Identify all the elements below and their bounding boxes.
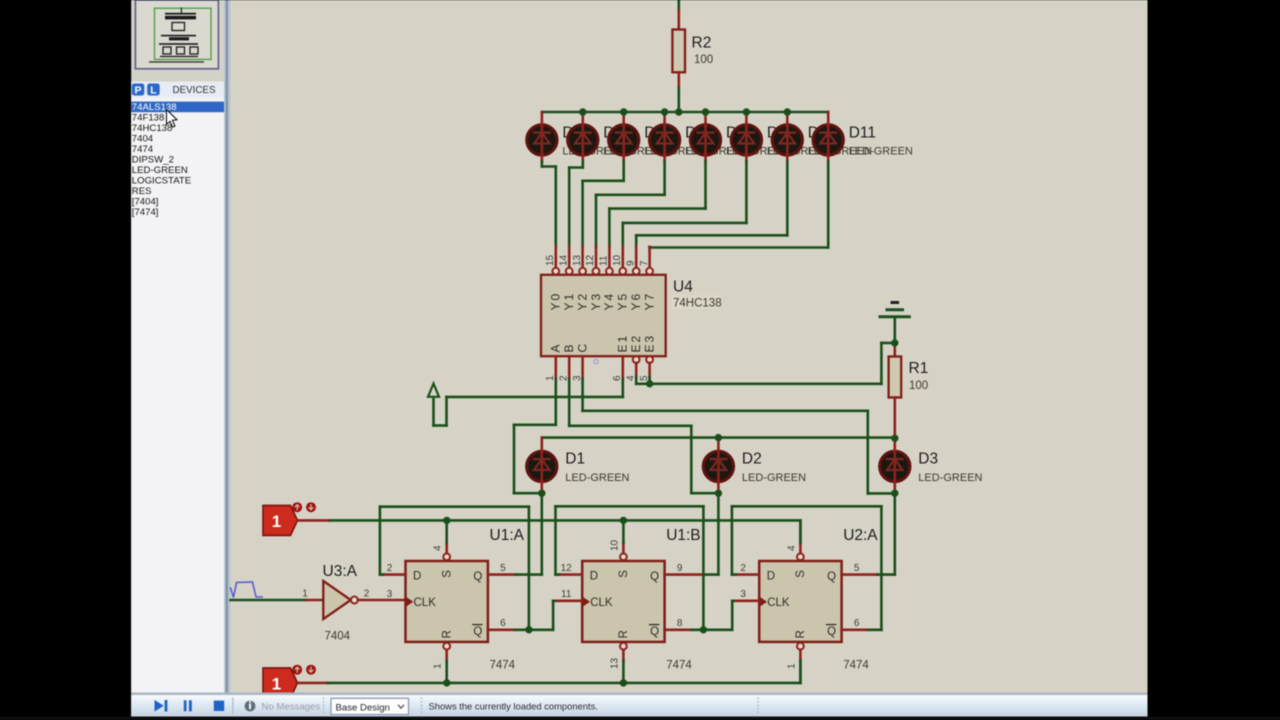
- svg-text:LED-GREEN: LED-GREEN: [849, 146, 913, 158]
- svg-text:R1: R1: [909, 360, 929, 377]
- svg-text:A: A: [549, 342, 563, 352]
- svg-text:L: L: [150, 85, 157, 97]
- wire U1:B Q to D2: [665, 493, 719, 574]
- junction bus/LED D5: [579, 108, 586, 115]
- svg-text:12: 12: [561, 563, 573, 574]
- svg-text:74HC138: 74HC138: [673, 298, 722, 310]
- svg-text:P: P: [134, 85, 141, 97]
- LED D1: [527, 450, 557, 482]
- wire bus to LED D4 top: [541, 112, 544, 125]
- svg-text:Base Design: Base Design: [336, 702, 390, 713]
- junction bus/LED D10: [784, 108, 791, 115]
- svg-text:LED-GREEN: LED-GREEN: [918, 472, 982, 484]
- LED anode bus wire: [542, 111, 828, 114]
- svg-text:D1: D1: [565, 451, 585, 468]
- wire U2:A Q to D3: [842, 493, 895, 574]
- svg-text:Q: Q: [473, 571, 482, 583]
- wire bus to LED D9 top: [745, 112, 748, 125]
- svg-text:5: 5: [500, 563, 506, 574]
- junction D2 bottom: [715, 490, 722, 497]
- play button: [155, 700, 168, 712]
- svg-text:DEVICES: DEVICES: [172, 85, 215, 96]
- svg-text:5: 5: [854, 563, 860, 574]
- svg-text:4: 4: [433, 545, 444, 551]
- wire into LED D2: [717, 438, 720, 494]
- status hint text: [422, 698, 598, 715]
- svg-text:Q: Q: [827, 626, 836, 638]
- svg-text:1: 1: [433, 663, 444, 669]
- svg-text:13: 13: [572, 254, 583, 266]
- minimap overview window: [135, 0, 218, 69]
- svg-text:10: 10: [609, 539, 620, 551]
- svg-text:E2: E2: [629, 334, 643, 353]
- svg-text:CLK: CLK: [767, 597, 790, 609]
- svg-text:Y1: Y1: [562, 292, 576, 311]
- flip-flop U1:B 7474: [561, 520, 701, 683]
- svg-text:R: R: [618, 630, 630, 638]
- panel/canvas divider: [224, 0, 231, 717]
- junction ground/R1: [891, 339, 898, 346]
- svg-text:D: D: [590, 571, 598, 583]
- junction bus/LED D9: [743, 108, 750, 115]
- wire bus to LED D8 top: [704, 112, 707, 125]
- input waveform glyph: [231, 582, 263, 598]
- wire U1:A D feedback: [380, 507, 529, 630]
- svg-text:Y4: Y4: [602, 292, 616, 311]
- wire U1:B Qbar to U2:A CLK: [665, 601, 760, 630]
- svg-text:D: D: [413, 571, 421, 583]
- wire LED D6 cathode to U4 Y2: [583, 155, 624, 268]
- svg-text:100: 100: [909, 380, 928, 392]
- svg-text:4: 4: [625, 375, 636, 381]
- LED D8: [690, 124, 720, 156]
- P/L buttons + DEVICES header: [131, 82, 225, 98]
- device list: [131, 98, 224, 693]
- wire bus to LED D11 top: [827, 112, 830, 125]
- wire U1:A Q to D1: [488, 493, 542, 574]
- svg-text:74ALS138: 74ALS138: [132, 102, 177, 113]
- svg-text:7404: 7404: [325, 631, 351, 643]
- svg-text:U3:A: U3:A: [323, 563, 358, 580]
- svg-text:No Messages: No Messages: [262, 702, 321, 713]
- LED D9: [731, 124, 761, 156]
- svg-text:3: 3: [387, 589, 393, 600]
- svg-text:U1:B: U1:B: [666, 527, 700, 544]
- junction D1 bottom: [538, 490, 545, 497]
- svg-text:7474: 7474: [490, 660, 516, 672]
- svg-text:CLK: CLK: [590, 597, 613, 609]
- svg-text:12: 12: [585, 254, 596, 266]
- svg-text:LED-GREEN: LED-GREEN: [565, 472, 629, 484]
- svg-text:U2:A: U2:A: [843, 527, 878, 544]
- svg-text:1: 1: [786, 663, 797, 669]
- svg-text:Shows the currently loaded com: Shows the currently loaded components.: [429, 700, 598, 711]
- wire U4.E1(6) to input arrow: [434, 379, 623, 426]
- wire bus to LED D6 top: [622, 112, 625, 125]
- svg-text:15: 15: [545, 254, 556, 266]
- svg-text:3: 3: [572, 375, 583, 381]
- inverter U3:A 7404: [302, 563, 370, 643]
- svg-text:Y0: Y0: [549, 292, 563, 311]
- svg-text:D11: D11: [849, 125, 876, 142]
- wire R1 to D3: [893, 398, 896, 439]
- wire LED D4 cathode to U4 Y0: [542, 155, 556, 268]
- right separator: [757, 698, 759, 715]
- svg-text:7474: 7474: [666, 660, 692, 672]
- svg-text:10: 10: [612, 254, 623, 266]
- separator: [232, 698, 234, 715]
- LED D7: [650, 124, 680, 156]
- input arrow terminal: [428, 384, 439, 397]
- wire R2 bottom to LED bus: [677, 72, 680, 112]
- junction U1:A Qbar/D feedback: [525, 626, 532, 633]
- junction bus/LED D6: [620, 108, 627, 115]
- svg-text:S: S: [618, 570, 630, 578]
- LED D10: [772, 124, 802, 156]
- svg-text:7404: 7404: [132, 134, 154, 145]
- wire U2:A Qbar join feedback: [842, 628, 882, 631]
- wire bus to LED D10 top: [786, 112, 789, 125]
- svg-text:4: 4: [786, 545, 797, 551]
- LED D3: [880, 450, 910, 482]
- decoder U4 74HC138: [541, 254, 722, 381]
- wire LED D8 cathode to U4 Y4: [609, 155, 705, 268]
- svg-text:9: 9: [677, 563, 683, 574]
- svg-text:11: 11: [599, 255, 610, 266]
- svg-text:100: 100: [694, 54, 713, 66]
- LED D5: [568, 124, 598, 156]
- junction U1:B Qbar/D feedback: [700, 626, 707, 633]
- svg-text:E3: E3: [642, 334, 656, 353]
- svg-text:Y6: Y6: [629, 292, 643, 311]
- svg-text:Q: Q: [827, 571, 836, 583]
- stop button: [214, 701, 224, 711]
- cathode rail D1-D2-D3: [542, 436, 895, 439]
- wire bus to LED D5 top: [581, 112, 584, 125]
- svg-text:2: 2: [387, 563, 393, 574]
- svg-text:Y7: Y7: [642, 292, 656, 311]
- svg-text:D3: D3: [918, 451, 938, 468]
- svg-text:S: S: [795, 570, 807, 578]
- logicstate 1 (RESET line): [263, 665, 316, 698]
- wire LED D5 cathode to U4 Y1: [569, 155, 583, 268]
- LED D2: [703, 450, 733, 482]
- clock input wire: [231, 599, 324, 602]
- svg-text:6: 6: [500, 618, 506, 629]
- svg-text:RES: RES: [132, 186, 152, 197]
- svg-text:2: 2: [740, 563, 746, 574]
- logicstate 1 (PRESET line): [263, 502, 316, 535]
- svg-text:9: 9: [625, 260, 636, 266]
- svg-text:74F138: 74F138: [132, 113, 165, 124]
- svg-text:Q: Q: [650, 571, 659, 583]
- junction E3/ground net: [646, 380, 653, 387]
- svg-text:1: 1: [302, 589, 308, 600]
- Base Design combo: [331, 698, 409, 714]
- dotted separator: [323, 698, 325, 715]
- svg-text:CLK: CLK: [414, 597, 437, 609]
- wire LED D9 cathode to U4 Y5: [623, 155, 747, 268]
- junction S U1:B: [620, 517, 627, 524]
- wire U4.C(3) to node QC: [583, 379, 895, 493]
- svg-text:E1: E1: [616, 334, 630, 353]
- svg-text:DIPSW_2: DIPSW_2: [132, 155, 174, 166]
- svg-text:[7404]: [7404]: [132, 197, 159, 208]
- junction bus/LED D8: [702, 108, 709, 115]
- svg-text:U1:A: U1:A: [490, 527, 525, 544]
- resistor R1: [889, 343, 929, 398]
- svg-text:Y2: Y2: [575, 292, 589, 311]
- LED D6: [609, 124, 639, 156]
- svg-text:LED-GREEN: LED-GREEN: [742, 472, 806, 484]
- resistor R2: [672, 30, 713, 73]
- wire LED D10 cathode to U4 Y6: [636, 155, 787, 268]
- labels D1..D3: [565, 451, 982, 485]
- svg-text:1: 1: [272, 512, 281, 531]
- svg-text:7474: 7474: [132, 144, 154, 155]
- svg-text:7474: 7474: [843, 660, 869, 672]
- pause button: [184, 700, 192, 711]
- junction R2/bus: [675, 108, 682, 115]
- svg-text:LED-GREEN: LED-GREEN: [132, 165, 188, 176]
- svg-text:13: 13: [609, 657, 620, 669]
- junction R U1:A: [443, 679, 450, 686]
- wire VCC to R2 top: [677, 0, 680, 30]
- svg-text:R2: R2: [692, 35, 712, 52]
- svg-text:Y5: Y5: [616, 292, 630, 311]
- LED D4: [527, 124, 557, 156]
- svg-text:R: R: [795, 630, 807, 638]
- svg-text:R: R: [442, 630, 454, 638]
- wire R-line: [298, 661, 801, 683]
- wire S-line: [298, 520, 801, 543]
- svg-text:2: 2: [558, 375, 569, 381]
- junction D3 bottom: [891, 490, 898, 497]
- wire U4.B(2) to node QB: [569, 379, 718, 493]
- left panel background: [131, 0, 230, 717]
- svg-text:D2: D2: [742, 451, 762, 468]
- wire LED D11 cathode to U4 Y7: [650, 155, 829, 268]
- svg-text:Y3: Y3: [589, 292, 603, 311]
- junction bus/LED D7: [661, 108, 668, 115]
- flip-flop U1:A 7474: [387, 520, 525, 683]
- mouse cursor: [167, 110, 178, 128]
- flip-flop U2:A 7474: [740, 520, 878, 683]
- bottom status toolbar: [131, 693, 1147, 717]
- junction R U1:B: [620, 679, 627, 686]
- LED name labels D4..D11 with LED-GREEN values: [562, 125, 913, 158]
- svg-text:U4: U4: [673, 279, 693, 296]
- svg-text:S: S: [442, 570, 454, 578]
- svg-text:Q: Q: [650, 626, 659, 638]
- wire U4.A(1) to node QA: [514, 379, 556, 493]
- svg-text:3: 3: [740, 589, 746, 600]
- ground: [880, 303, 909, 343]
- junction D3 anode: [891, 435, 898, 442]
- svg-text:B: B: [562, 342, 576, 352]
- svg-text:LOGICSTATE: LOGICSTATE: [132, 176, 191, 187]
- junction D2 top: [715, 434, 722, 441]
- junction S U1:A: [443, 517, 450, 524]
- LED D11: [813, 124, 843, 156]
- wire U4.E2(4)/E3(5) to ground net: [636, 343, 895, 384]
- svg-text:11: 11: [561, 589, 572, 600]
- wire U2:A D feedback: [732, 506, 882, 630]
- svg-text:2: 2: [364, 589, 370, 600]
- svg-text:5: 5: [639, 375, 650, 381]
- svg-text:D: D: [767, 571, 775, 583]
- svg-text:1: 1: [272, 674, 281, 693]
- wire U3:A out to U1:A CLK: [358, 599, 406, 602]
- schematic canvas background: [231, 0, 1148, 695]
- svg-text:C: C: [575, 342, 589, 353]
- svg-text:[7474]: [7474]: [132, 207, 159, 218]
- svg-text:Q: Q: [473, 626, 482, 638]
- svg-text:1: 1: [545, 375, 556, 381]
- svg-text:7: 7: [639, 260, 650, 266]
- wire bus to LED D7 top: [663, 112, 666, 125]
- bottom black strip: [0, 717, 1280, 720]
- svg-text:8: 8: [677, 618, 683, 629]
- wire into LED D1: [540, 438, 543, 494]
- svg-text:6: 6: [612, 375, 623, 381]
- wire U1:B D feedback: [556, 506, 704, 630]
- svg-text:6: 6: [854, 618, 860, 629]
- wire U1:A Qbar to U1:B CLK: [488, 601, 582, 630]
- svg-text:14: 14: [558, 254, 569, 266]
- wire into LED D3: [893, 438, 896, 494]
- wire LED D7 cathode to U4 Y3: [596, 155, 665, 268]
- info icon + message: [245, 701, 321, 713]
